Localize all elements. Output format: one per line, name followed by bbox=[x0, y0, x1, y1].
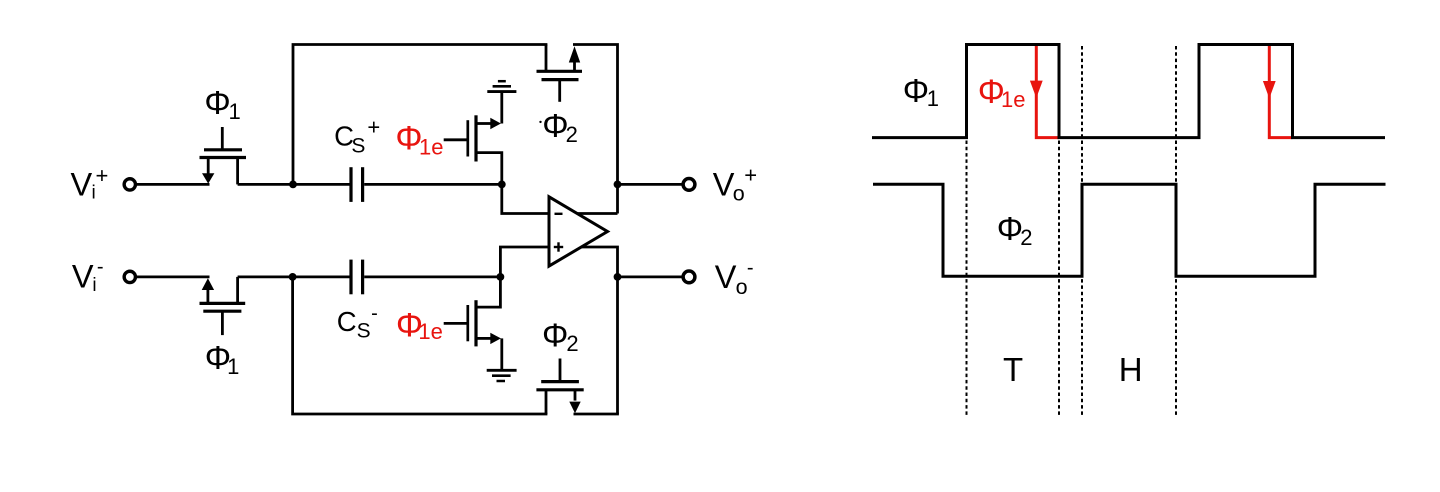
transistor M1 (phi1 input switch, top) bbox=[200, 127, 247, 184]
label phi1e (timing, red) bbox=[978, 73, 1026, 112]
svg-text:V: V bbox=[71, 166, 93, 202]
svg-text:2: 2 bbox=[566, 331, 578, 356]
transistor M3 (phi1e reset switch, top) bbox=[468, 93, 502, 185]
svg-text:1e: 1e bbox=[419, 135, 443, 160]
label phi2 bottom bbox=[542, 316, 579, 356]
op-amp U1 bbox=[549, 197, 608, 266]
svg-text:V: V bbox=[715, 259, 737, 295]
dotted line t2 bbox=[1058, 46, 1060, 417]
label phi2 top bbox=[539, 107, 578, 147]
svg-text:2: 2 bbox=[1020, 225, 1032, 250]
terminal Vo+ bbox=[683, 179, 695, 191]
svg-text:C: C bbox=[337, 306, 357, 337]
terminal Vi+ bbox=[124, 179, 135, 190]
svg-text:V: V bbox=[713, 166, 735, 202]
waveform phi2 bbox=[873, 184, 1386, 276]
transistor M4 (phi1e reset switch, bottom) bbox=[468, 278, 502, 370]
svg-text:T: T bbox=[1003, 351, 1023, 388]
label phi1 bottom bbox=[205, 339, 240, 379]
terminal Vo- bbox=[683, 271, 695, 283]
wire M1 to node A bbox=[238, 183, 295, 186]
svg-text:Φ: Φ bbox=[542, 316, 568, 353]
svg-text:+: + bbox=[744, 162, 757, 187]
label phi2 (timing) bbox=[997, 210, 1033, 250]
svg-text:i: i bbox=[92, 275, 96, 296]
svg-text:1: 1 bbox=[229, 99, 241, 124]
capacitor CS+ bbox=[351, 167, 363, 202]
wire CS- to node E bbox=[364, 275, 500, 278]
wire U1 negative output tap and right feedback down bbox=[581, 247, 618, 414]
svg-text:V: V bbox=[72, 259, 94, 295]
waveform phi1 bbox=[872, 45, 1385, 138]
svg-text:o: o bbox=[736, 275, 748, 299]
wire node E to op-amp non-inverting input bbox=[500, 247, 549, 277]
svg-text:1: 1 bbox=[927, 86, 939, 111]
wire CS+ to node B bbox=[364, 183, 502, 186]
wire node D to CS- bbox=[293, 275, 350, 278]
svg-text:S: S bbox=[357, 320, 371, 343]
node A bbox=[289, 181, 297, 189]
wire node C to Vo+ terminal bbox=[618, 183, 682, 186]
label CS- bbox=[337, 303, 378, 343]
svg-text:1e: 1e bbox=[1001, 87, 1025, 112]
svg-text:-: - bbox=[371, 303, 378, 325]
wire top feedback rail right and down to node C bbox=[573, 45, 618, 214]
plus sign U1 bbox=[554, 242, 563, 251]
svg-text:+: + bbox=[96, 163, 109, 188]
wire phi1e gate stub bottom bbox=[444, 322, 467, 325]
dotted line t1 bbox=[966, 46, 968, 417]
label Vi+ bbox=[71, 163, 109, 204]
dotted line t3 bbox=[1081, 46, 1083, 417]
wire node D down and bottom feedback rail left bbox=[293, 275, 548, 414]
transistor M5 (phi2 feedback switch, top) bbox=[537, 45, 583, 102]
label CS+ bbox=[334, 115, 380, 158]
minus sign U1 bbox=[555, 213, 563, 215]
label phi1e top (red) bbox=[395, 120, 443, 160]
node E bbox=[497, 273, 505, 281]
node D bbox=[289, 273, 297, 281]
wire U1 positive output tap bbox=[577, 212, 618, 215]
svg-text:-: - bbox=[97, 256, 104, 278]
wire bottom feedback rail right bbox=[574, 413, 619, 416]
svg-text:Φ: Φ bbox=[903, 72, 929, 109]
phi1e early falling edge 2 (red) bbox=[1263, 46, 1293, 138]
wire M2 to node D bbox=[238, 275, 295, 278]
svg-text:Φ: Φ bbox=[542, 107, 568, 144]
wire node B to op-amp inverting input bbox=[502, 184, 549, 213]
dotted line t4 bbox=[1175, 46, 1177, 417]
node F (Vo- node) bbox=[614, 273, 622, 281]
terminal Vi- bbox=[124, 271, 135, 282]
svg-text:+: + bbox=[367, 115, 380, 140]
node C (Vo+ node) bbox=[614, 181, 622, 189]
svg-text:2: 2 bbox=[566, 122, 578, 147]
svg-text:-: - bbox=[747, 257, 754, 279]
wire node A to CS+ bbox=[293, 183, 350, 186]
node B bbox=[498, 181, 506, 189]
label Vo- bbox=[715, 257, 754, 299]
svg-text:Φ: Φ bbox=[997, 210, 1023, 247]
wire Vi+ to M1 bbox=[137, 183, 210, 186]
svg-text:1: 1 bbox=[227, 354, 239, 379]
label Vo+ bbox=[713, 162, 757, 205]
label Vi- bbox=[72, 256, 104, 296]
transistor M6 (phi2 feedback switch, bottom) bbox=[536, 359, 583, 415]
svg-text:Φ: Φ bbox=[204, 84, 230, 121]
label phi1e bottom (red) bbox=[396, 306, 443, 344]
ground (below M4) bbox=[487, 370, 517, 381]
wire node F to Vo- terminal bbox=[618, 275, 682, 278]
ground (flipped, above M3) bbox=[487, 81, 516, 91]
svg-text:1e: 1e bbox=[418, 319, 442, 344]
wire Vi- to M2 bbox=[137, 275, 210, 278]
svg-text:o: o bbox=[733, 181, 745, 205]
svg-text:S: S bbox=[351, 135, 365, 158]
label phi1 (timing) bbox=[903, 72, 939, 111]
phi1e early falling edge 1 (red) bbox=[1030, 46, 1059, 138]
transistor M2 (phi1 input switch, bottom) bbox=[200, 277, 246, 335]
capacitor CS- bbox=[351, 260, 363, 295]
wire node A up and top feedback rail left bbox=[293, 45, 547, 187]
wire phi1e gate stub top bbox=[444, 138, 467, 141]
label phi1 top bbox=[204, 84, 240, 124]
svg-text:H: H bbox=[1119, 351, 1143, 388]
